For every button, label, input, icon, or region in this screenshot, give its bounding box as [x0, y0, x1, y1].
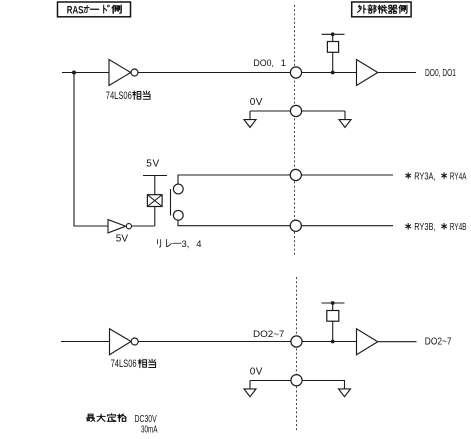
junction node	[331, 71, 335, 75]
svg-text:3,: 3,	[182, 239, 190, 250]
label 74LS06相当 (top)	[106, 90, 150, 102]
wire connector to buffer (bottom)	[302, 341, 356, 343]
svg-text:RY4A: RY4A	[450, 171, 467, 182]
svg-text:DC30V: DC30V	[135, 414, 157, 425]
wire inverter to connector (bottom)	[138, 341, 291, 343]
wire RY-A	[178, 175, 291, 184]
wire RY-B right	[301, 225, 393, 227]
wire driver to coil	[132, 225, 155, 227]
external device side label box	[352, 2, 411, 17]
pull-up resistor (top)	[322, 32, 345, 72]
svg-text:5V: 5V	[146, 158, 159, 169]
buffer amplifier (top)	[357, 60, 378, 86]
connector pin RY-B	[290, 220, 301, 231]
ground right (top)	[339, 111, 351, 127]
wire RY-B	[178, 220, 291, 226]
connector pin DO0	[290, 67, 301, 78]
svg-text:RY3A,: RY3A,	[414, 171, 435, 182]
label リレー3, 4	[157, 239, 201, 250]
wire connector to buffer	[302, 72, 357, 74]
buffer amplifier (bottom)	[357, 329, 378, 355]
junction node	[72, 71, 76, 75]
svg-text:DO2~7: DO2~7	[253, 329, 284, 340]
ground right (bottom)	[339, 381, 351, 397]
connector pin 0V (top)	[290, 105, 301, 116]
svg-text:DO0, DO1: DO0, DO1	[425, 68, 456, 79]
boundary dotted line bottom	[296, 277, 298, 431]
note 最大定格 DC30V 30mA	[86, 414, 157, 436]
connector pin RY-A	[290, 169, 301, 180]
wire branch down	[74, 73, 108, 227]
relay coil リレー3,4	[147, 195, 162, 207]
wire RY-A right	[301, 174, 393, 176]
connector pin 0V (bottom)	[291, 375, 302, 386]
svg-text:RAS: RAS	[67, 4, 84, 16]
pull-up resistor (bottom)	[322, 301, 345, 341]
label *RY3B, *RY4B	[405, 222, 466, 233]
svg-text:DO0,: DO0,	[253, 58, 274, 69]
connector pin DO2-7	[291, 336, 302, 347]
inverter 74LS06 (top)	[109, 60, 138, 86]
svg-text:RY3B,: RY3B,	[414, 222, 435, 233]
svg-text:74LS06: 74LS06	[106, 90, 132, 102]
relay contact B	[173, 210, 183, 220]
relay contact A	[173, 184, 183, 194]
label *RY3A, *RY4A	[405, 171, 466, 182]
junction node	[331, 340, 335, 344]
label 外部機器側	[358, 5, 407, 13]
svg-text:1: 1	[281, 58, 286, 69]
wire 0V (bottom)	[250, 380, 345, 382]
wire inverter to connector	[138, 72, 291, 74]
svg-text:0V: 0V	[250, 97, 263, 108]
ground left (bottom)	[244, 381, 256, 397]
wire DO0 input	[62, 72, 109, 74]
svg-text:DO2~7: DO2~7	[425, 337, 452, 348]
svg-text:RY4B: RY4B	[450, 222, 467, 233]
inverter relay driver	[108, 220, 132, 233]
svg-text:0V: 0V	[250, 367, 263, 378]
wire coil to driver	[154, 207, 156, 227]
wire DO2-7 input	[61, 341, 110, 343]
label RASカード側	[67, 4, 121, 16]
RAS card side label box	[58, 2, 131, 17]
label 74LS06相当 (bottom)	[111, 358, 156, 370]
ground left (top)	[244, 111, 256, 127]
wire buffer output	[378, 72, 416, 74]
svg-text:5V: 5V	[116, 233, 129, 244]
wire buffer output (bottom)	[378, 341, 417, 343]
label DO0, 1	[253, 58, 286, 69]
boundary dotted line top	[294, 5, 296, 256]
inverter 74LS06 (bottom)	[110, 329, 139, 355]
svg-text:4: 4	[196, 239, 201, 250]
svg-text:74LS06: 74LS06	[111, 358, 137, 370]
wire 0V (top)	[250, 110, 345, 112]
relay armature	[170, 189, 172, 216]
svg-text:30mA: 30mA	[141, 424, 158, 435]
5V power rail	[143, 176, 167, 195]
